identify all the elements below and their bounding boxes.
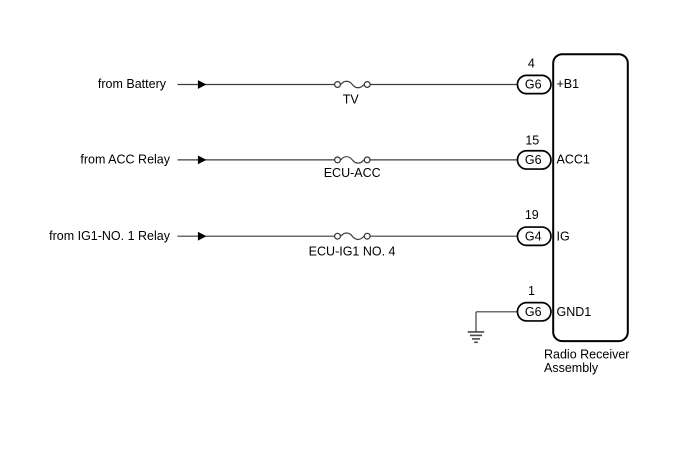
svg-text:G4: G4 bbox=[525, 229, 542, 243]
svg-text:15: 15 bbox=[525, 134, 539, 148]
svg-text:Assembly: Assembly bbox=[544, 361, 599, 375]
svg-text:Radio Receiver: Radio Receiver bbox=[544, 348, 629, 362]
svg-text:IG: IG bbox=[557, 230, 570, 244]
svg-text:ECU-ACC: ECU-ACC bbox=[324, 166, 381, 180]
svg-text:TV: TV bbox=[343, 92, 360, 106]
svg-text:from ACC Relay: from ACC Relay bbox=[80, 153, 170, 167]
svg-text:GND1: GND1 bbox=[557, 305, 592, 319]
svg-text:19: 19 bbox=[525, 208, 539, 222]
svg-text:G6: G6 bbox=[525, 305, 542, 319]
svg-text:from Battery: from Battery bbox=[98, 77, 167, 91]
svg-text:+B1: +B1 bbox=[557, 77, 580, 91]
svg-text:ECU-IG1 NO. 4: ECU-IG1 NO. 4 bbox=[309, 245, 396, 259]
svg-text:4: 4 bbox=[528, 57, 535, 71]
svg-text:G6: G6 bbox=[525, 78, 542, 92]
svg-text:from IG1-NO. 1 Relay: from IG1-NO. 1 Relay bbox=[49, 229, 171, 243]
svg-text:1: 1 bbox=[528, 284, 535, 298]
svg-text:ACC1: ACC1 bbox=[557, 153, 590, 167]
svg-text:G6: G6 bbox=[525, 153, 542, 167]
